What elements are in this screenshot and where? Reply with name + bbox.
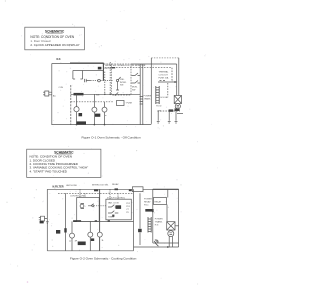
label under fan dark <box>91 238 94 241</box>
circle lamp 2 <box>97 232 102 237</box>
wall plug left <box>43 91 52 96</box>
wire low rail dashed <box>71 101 113 103</box>
svg-text:RELAY: RELAY <box>155 200 162 203</box>
arrow mark on N rail <box>112 67 115 68</box>
transformer primary btm <box>148 217 151 233</box>
TTM leads <box>104 102 106 125</box>
svg-text:3P: 3P <box>75 240 78 242</box>
wire contact to box2 dashed <box>94 205 106 207</box>
svg-text:INTER.: INTER. <box>120 82 127 84</box>
noise filter prongs <box>73 71 83 80</box>
ground drop 2 <box>168 111 171 123</box>
fan leads <box>89 221 91 250</box>
wire top rail 2 btm dashed <box>58 192 134 194</box>
svg-text:4. "START" PAD TOUCHED: 4. "START" PAD TOUCHED <box>30 169 68 173</box>
power plug P2 <box>39 216 48 221</box>
wire top rail btm <box>47 188 178 190</box>
capacitor circle <box>98 79 101 82</box>
dark label power cord <box>77 121 87 124</box>
wire left edge btm <box>46 189 48 251</box>
circle fan motor 2 <box>88 232 93 237</box>
svg-text:3L: 3L <box>102 240 105 242</box>
dark mark box2 bottom <box>108 220 110 222</box>
monitor switch contacts <box>132 73 141 83</box>
ground drop 1 <box>157 111 160 123</box>
thermal junction dot <box>174 81 176 83</box>
wire hv vertical 152 <box>152 189 154 243</box>
magnetron leads btm <box>169 237 172 248</box>
wire box drop left <box>104 72 106 95</box>
noise filter bold right edge <box>102 63 104 81</box>
wire top rail bold <box>70 62 103 64</box>
dark mark on rail c <box>129 190 132 192</box>
wire below boxes <box>77 220 134 222</box>
interlock switch S1 <box>116 79 118 81</box>
dark mark box1 bottom left <box>73 220 81 222</box>
thermal branch marks <box>160 80 166 82</box>
svg-text:H.V.: H.V. <box>155 225 159 227</box>
note box figure O-2 <box>27 149 101 177</box>
svg-text:SW.: SW. <box>120 85 124 87</box>
label oven lamp dark <box>78 242 86 246</box>
magnetron fil link <box>175 225 179 227</box>
oven lamp leads <box>76 94 78 124</box>
svg-text:e-: e- <box>105 115 107 117</box>
magnetron cathode btm <box>169 233 172 235</box>
wire mid rail <box>71 93 140 95</box>
junction blob 1 <box>169 109 174 111</box>
TT leads <box>71 221 73 250</box>
dark mark on rail a <box>94 190 98 192</box>
interlock box <box>112 64 132 95</box>
wire cap dashed right <box>90 80 113 82</box>
wire hv left pair <box>140 64 143 125</box>
svg-text:TRANS.: TRANS. <box>144 97 152 100</box>
wire hv dashed vertical <box>167 83 169 96</box>
wire drop dashed <box>109 62 111 95</box>
svg-text:SCHEMATIC: SCHEMATIC <box>45 29 65 33</box>
ground arrows btm <box>154 240 159 247</box>
wire faint top dash <box>151 57 179 59</box>
dark contact on x140 <box>138 229 142 232</box>
junction dot 1 <box>152 211 154 213</box>
ground drop 3 <box>175 111 178 123</box>
svg-text:RELAY: RELAY <box>112 183 119 186</box>
dark mark box1 bottom right <box>95 220 97 222</box>
wire inner vertical left <box>65 193 67 251</box>
transformer ticks <box>156 87 159 103</box>
wire right vertical btm <box>178 189 180 247</box>
label on mid rail dark <box>74 93 84 96</box>
magnetron circle <box>175 104 180 109</box>
svg-text:RELAY: RELAY <box>144 201 151 204</box>
svg-text:RY-1: RY-1 <box>144 205 149 207</box>
label OL dark <box>79 113 83 116</box>
wire bottom rail btm <box>47 250 133 252</box>
junction dot rail a <box>104 94 106 96</box>
svg-text:TRANS.: TRANS. <box>155 221 163 224</box>
magnetron cathode <box>177 106 179 108</box>
junction dot rail b <box>109 94 111 96</box>
capacitor C1 <box>85 79 91 82</box>
dark bar relay closed <box>145 209 153 212</box>
label FM dark <box>95 114 100 117</box>
rail crossing contact <box>115 92 118 95</box>
magnetron filter X <box>174 96 181 104</box>
svg-text:CUT-OUT: CUT-OUT <box>159 75 169 77</box>
fuse box <box>117 101 125 106</box>
relay2 small dot <box>112 215 114 217</box>
relay2 dark blob <box>116 205 122 209</box>
svg-text:Figure O-1 Oven Schematic - Of: Figure O-1 Oven Schematic - Off Conditio… <box>82 135 141 139</box>
magnetron box X btm <box>167 222 175 230</box>
svg-text:TIMER: TIMER <box>108 217 115 219</box>
dark contact on inner vertical <box>64 228 66 232</box>
svg-text:N.FILTER: N.FILTER <box>53 185 64 188</box>
svg-text:Figure O-2 Oven Schematic - Co: Figure O-2 Oven Schematic - Cooking Cond… <box>70 257 137 261</box>
magnetron leads <box>176 109 179 111</box>
wire hv link dashed <box>157 110 180 112</box>
control box right <box>106 199 131 220</box>
svg-text:N.F.: N.F. <box>57 58 62 61</box>
wire drop into box1 <box>80 189 85 197</box>
magnetron filter box <box>174 96 181 104</box>
wire rail to interlock box dashed <box>104 63 112 65</box>
fan motor leads <box>93 94 95 124</box>
transformer ticks btm <box>148 219 151 232</box>
relay2 contacts <box>108 205 118 213</box>
wire top rail left light <box>52 63 70 65</box>
wire bottom rail <box>52 124 152 126</box>
fan motor FM <box>92 107 97 112</box>
svg-text:SW.: SW. <box>96 94 100 96</box>
svg-text:2. CLOCK APPEARED ON DISPLAY: 2. CLOCK APPEARED ON DISPLAY <box>30 43 79 47</box>
svg-text:THERMAL: THERMAL <box>159 71 170 74</box>
wire mid vertical bold <box>99 189 101 251</box>
noise filter inner top <box>73 70 104 72</box>
oven lamp OL <box>74 107 79 112</box>
wire hv vertical 151 <box>150 58 152 124</box>
svg-text:MON.: MON. <box>132 87 138 89</box>
svg-text:VAR. COOK: VAR. COOK <box>108 202 120 205</box>
label plug 2 dark <box>40 221 44 224</box>
svg-text:POWER: POWER <box>144 96 152 98</box>
svg-text:H.V.D: H.V.D <box>156 106 162 108</box>
junction dots bottom rail <box>76 124 78 126</box>
svg-text:FUSE: FUSE <box>127 103 133 105</box>
turntable motor TTM <box>102 107 107 112</box>
relay coil circle inside box1 <box>80 204 84 208</box>
svg-text:FUSE 15A: FUSE 15A <box>159 77 169 80</box>
junction dot 2 <box>167 246 169 248</box>
svg-text:LATCH SW.: LATCH SW. <box>66 184 77 187</box>
svg-text:CONTROL UNIT: CONTROL UNIT <box>70 196 86 198</box>
transformer primary T1 <box>156 86 159 104</box>
control box left <box>77 198 100 222</box>
label 3P dark <box>56 230 60 234</box>
wire top rail bold right <box>153 188 179 190</box>
svg-text:H.V.CAP: H.V.CAP <box>161 96 169 99</box>
wire rail N dashed <box>105 67 172 69</box>
wire right edge pair <box>177 58 179 96</box>
junction blob 2 <box>175 108 180 111</box>
wire inner left vertical <box>70 85 72 125</box>
wire short right <box>177 113 183 115</box>
wire N drop <box>171 68 173 82</box>
wire right of box2 <box>133 189 135 251</box>
svg-text:2ND.: 2ND. <box>120 79 125 81</box>
junction marks near 140 <box>140 97 143 105</box>
wire hv vertical 167 <box>166 189 169 221</box>
wire outer left edge <box>51 64 53 126</box>
svg-text:INTERLOCK SW.: INTERLOCK SW. <box>92 185 109 187</box>
fuse box on rail <box>132 187 143 192</box>
svg-text:POWER: POWER <box>144 199 152 201</box>
relay contact inside box1 <box>88 204 94 206</box>
wire top rail right <box>131 63 177 65</box>
svg-text:SW: SW <box>132 90 135 92</box>
note box figure O-1 <box>25 27 85 50</box>
dark mark on rail b <box>115 188 119 190</box>
circle TT motor <box>70 233 75 238</box>
thermal branch wire <box>158 81 177 83</box>
interlock switch blade <box>116 77 121 90</box>
magnetron box btm <box>167 222 175 230</box>
wire hv bottom 2 <box>134 246 179 248</box>
svg-text:RY: RY <box>126 212 129 214</box>
svg-text:AC: AC <box>53 94 56 97</box>
wire drops into box2 <box>110 189 118 199</box>
svg-text:RY1: RY1 <box>126 206 130 208</box>
svg-text:CON: CON <box>59 87 64 89</box>
svg-text:CT: CT <box>126 209 129 211</box>
plug earth tick <box>46 222 49 223</box>
relay box right <box>154 198 167 205</box>
relay contact circle <box>92 205 94 207</box>
svg-text:POWER: POWER <box>155 219 163 221</box>
svg-text:RY2: RY2 <box>126 203 130 205</box>
wire vertical x140 <box>139 193 141 245</box>
label NF inside dark <box>98 67 102 70</box>
wire hv bottom 1 <box>153 242 179 244</box>
relay coil ticks <box>81 204 85 209</box>
magnetron circle btm <box>168 231 174 237</box>
